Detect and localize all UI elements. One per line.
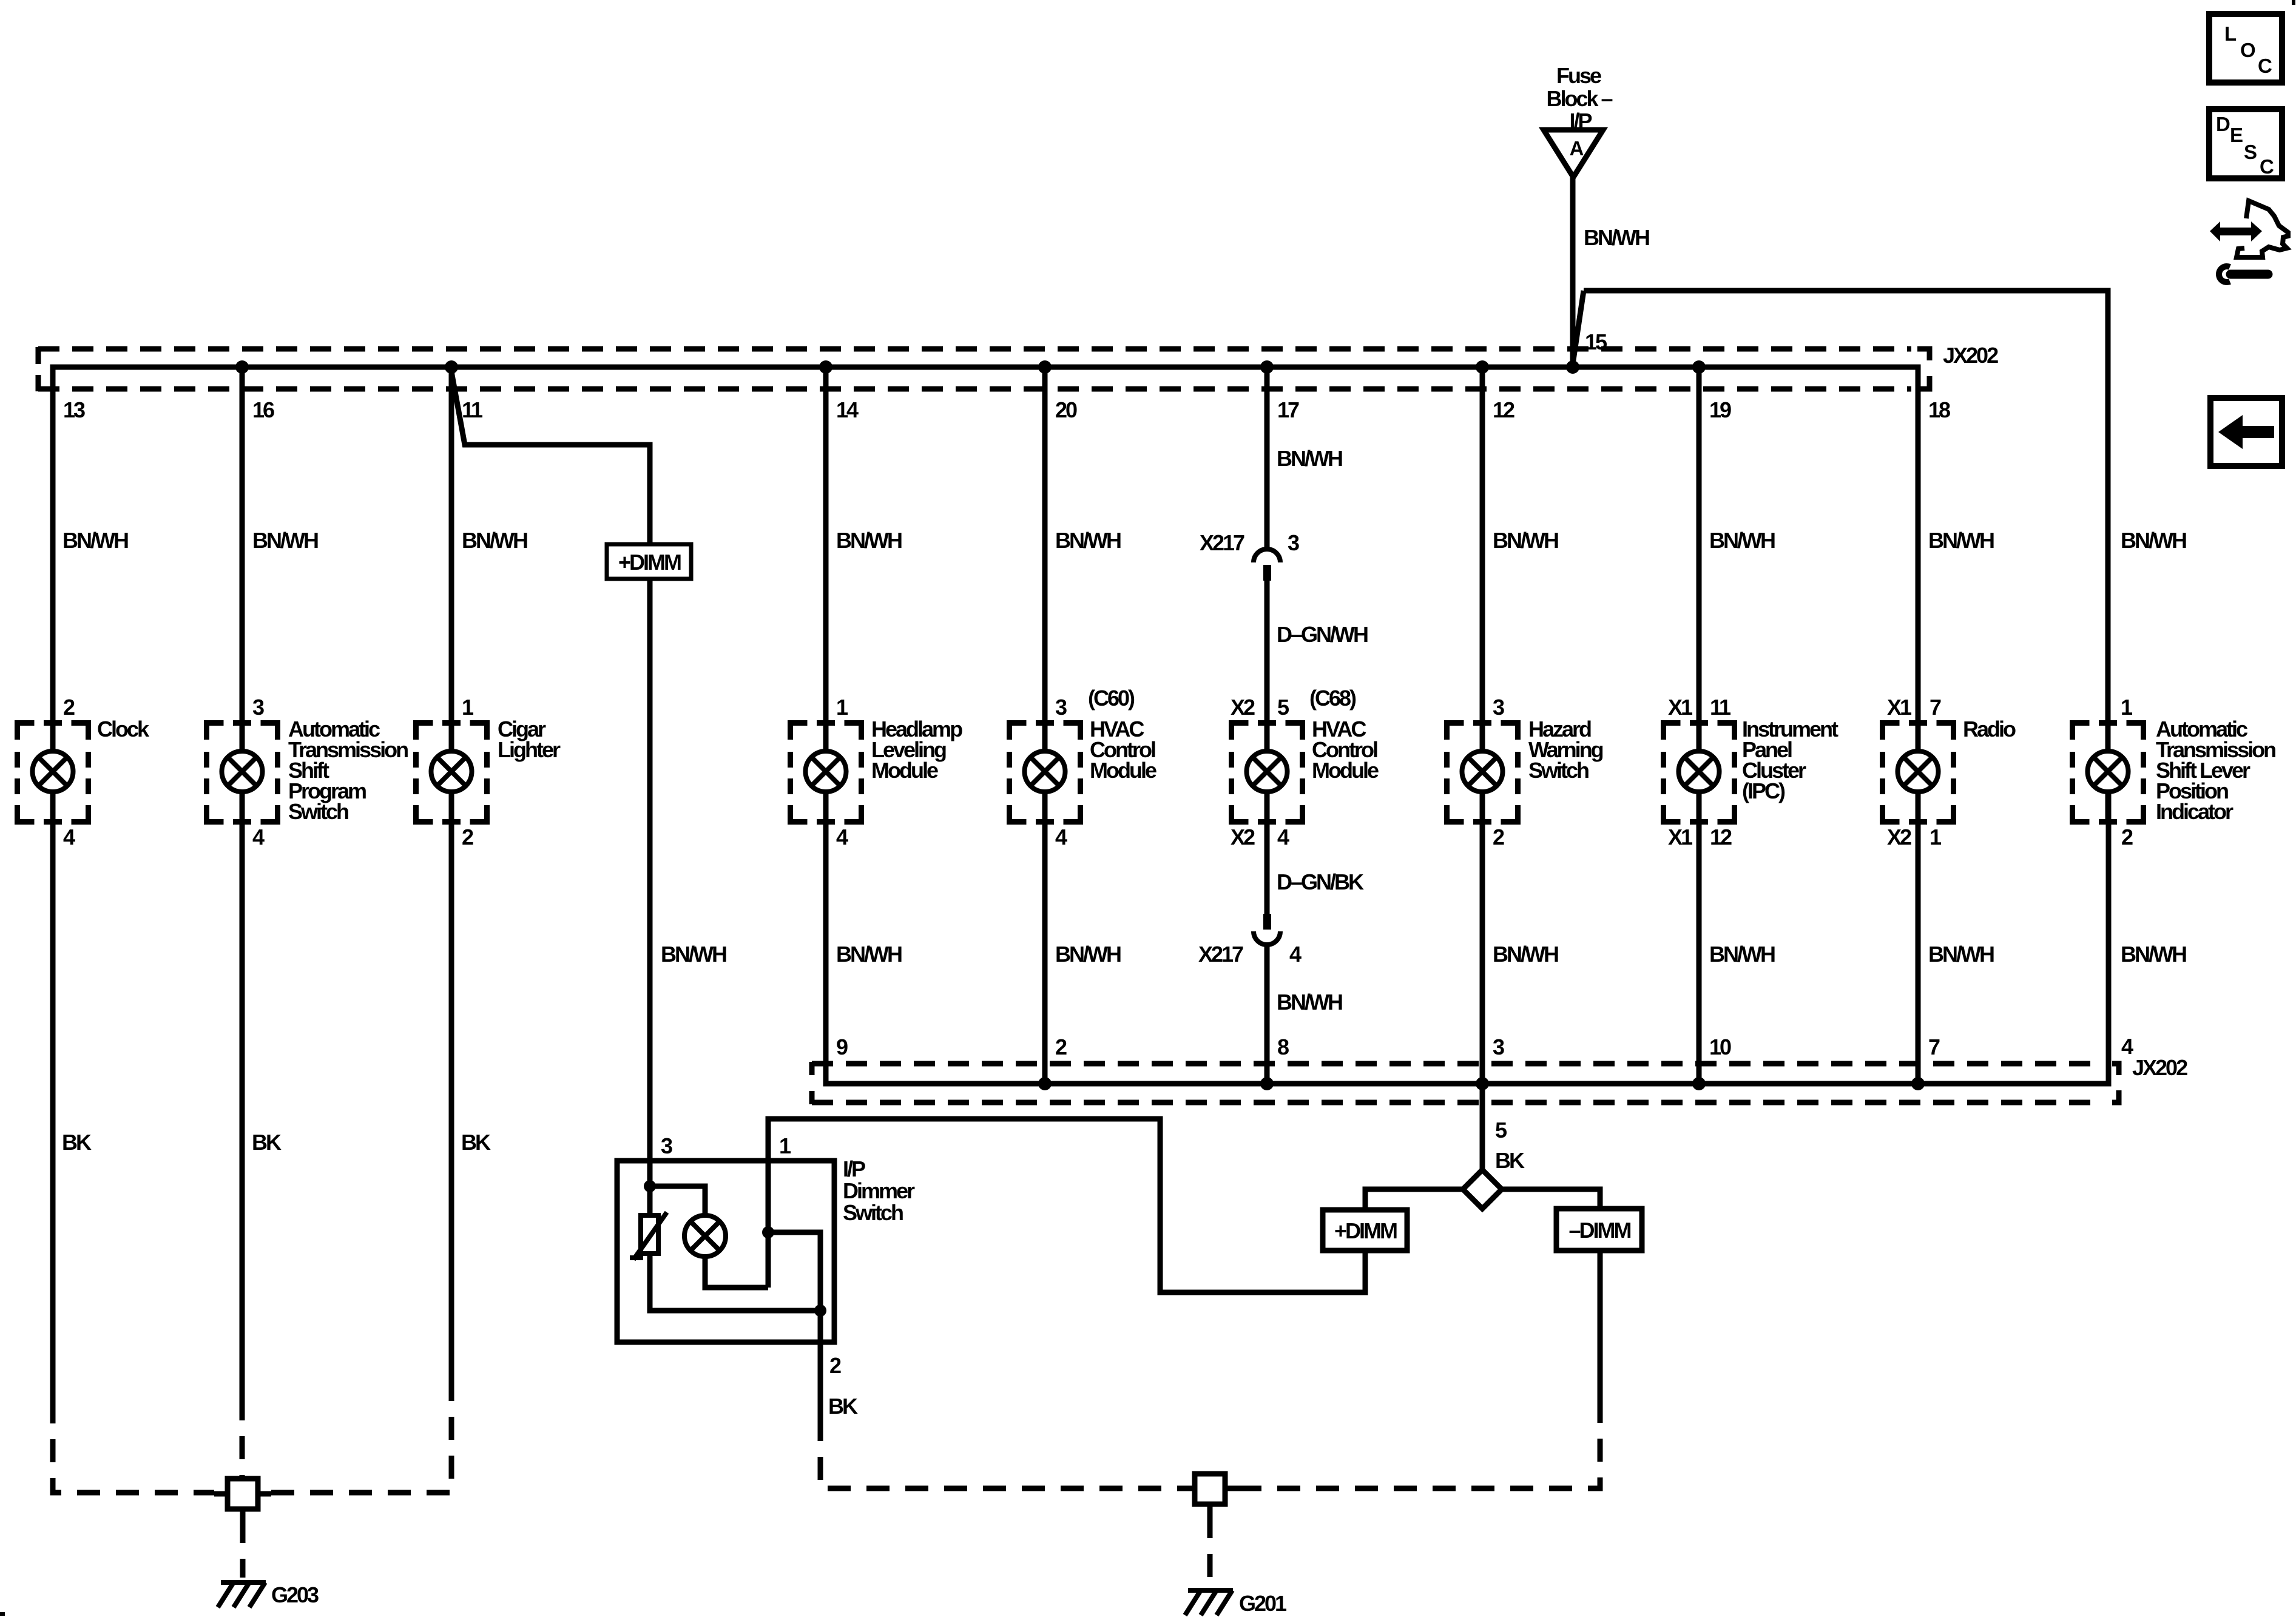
name Automatic Transmission Shift Program Switch bbox=[288, 717, 408, 824]
svg-text:7: 7 bbox=[1930, 695, 1941, 720]
splice diamond bbox=[1463, 1170, 1502, 1209]
svg-text:G203: G203 bbox=[271, 1582, 319, 1607]
svg-text:BN/WH: BN/WH bbox=[1277, 990, 1342, 1014]
connector X217 pin 3 male blade bbox=[1263, 565, 1271, 581]
wire ATSPS lower BK drop bbox=[240, 792, 245, 1397]
node dimmer junction B bbox=[762, 1226, 774, 1238]
wire col 12 drop bbox=[1480, 367, 1485, 751]
JX202 lower junction block dashed outline bbox=[812, 1064, 2096, 1102]
svg-text:7: 7 bbox=[1928, 1035, 1940, 1059]
wire +DIMM return to dimmer switch pin 1 bbox=[768, 1119, 1365, 1292]
I/P Dimmer Switch box bbox=[617, 1161, 834, 1342]
node bus junction col 11 bbox=[445, 360, 458, 374]
svg-text:X2: X2 bbox=[1231, 825, 1255, 849]
svg-text:4: 4 bbox=[63, 825, 75, 849]
svg-text:BN/WH: BN/WH bbox=[1709, 942, 1775, 967]
svg-text:Block –: Block – bbox=[1546, 86, 1612, 111]
svg-text:4: 4 bbox=[1289, 942, 1302, 967]
svg-text:9: 9 bbox=[836, 1035, 848, 1059]
svg-text:1: 1 bbox=[462, 695, 474, 720]
wire col 2 lower drop bbox=[1042, 792, 1048, 1084]
svg-text:X217: X217 bbox=[1198, 942, 1243, 967]
node lower bus junction 8 bbox=[1260, 1077, 1274, 1090]
splice box G203 bbox=[214, 1479, 271, 1520]
wire dimmer pin 3 internal bbox=[647, 1161, 653, 1215]
wire D-GN/BK from HVAC C68 to X217 pin 4 bbox=[1264, 792, 1270, 914]
svg-text:BN/WH: BN/WH bbox=[1584, 225, 1649, 250]
svg-text:Switch: Switch bbox=[1528, 758, 1589, 783]
wire diamond to +DIMM bbox=[1365, 1189, 1463, 1210]
svg-text:BK: BK bbox=[62, 1130, 92, 1155]
wire dimmer B to C bbox=[768, 1232, 820, 1311]
svg-text:8: 8 bbox=[1277, 1035, 1289, 1059]
svg-text:O: O bbox=[2240, 39, 2255, 61]
svg-text:(IPC): (IPC) bbox=[1742, 778, 1785, 803]
svg-text:L: L bbox=[2224, 22, 2237, 45]
svg-text:BN/WH: BN/WH bbox=[2121, 528, 2186, 553]
wire col 20 drop bbox=[1042, 367, 1048, 751]
svg-text:BN/WH: BN/WH bbox=[62, 528, 128, 553]
name HVAC Control Module C60 bbox=[1090, 717, 1156, 783]
node bus junction col 14 bbox=[819, 360, 832, 374]
svg-text:–DIMM: –DIMM bbox=[1569, 1218, 1631, 1243]
svg-text:JX202: JX202 bbox=[1943, 343, 1998, 368]
svg-text:BN/WH: BN/WH bbox=[1493, 942, 1558, 967]
svg-text:2: 2 bbox=[1493, 825, 1504, 849]
ground G203 bbox=[218, 1582, 266, 1607]
svg-text:2: 2 bbox=[1055, 1035, 1067, 1059]
lamp Automatic Transmission Shift Program Switch bbox=[207, 720, 278, 825]
wire lower bus JX202 with end drops bbox=[826, 792, 2109, 1084]
svg-text:2: 2 bbox=[829, 1353, 841, 1378]
lamp Clock bbox=[18, 720, 89, 825]
wire upper bus with Clock and Radio drops bbox=[53, 367, 1918, 751]
svg-text:1: 1 bbox=[1930, 825, 1942, 849]
svg-text:3: 3 bbox=[1493, 695, 1504, 720]
wire D-GN/WH to HVAC C68 bbox=[1264, 581, 1270, 751]
svg-text:S: S bbox=[2244, 141, 2257, 163]
wire col 17 drop to connector X217 bbox=[1264, 367, 1270, 550]
svg-text:2: 2 bbox=[63, 695, 75, 720]
svg-text:Fuse: Fuse bbox=[1556, 63, 1601, 88]
wire feed to Automatic Transmission Shift Lever Position Indicator bbox=[1573, 291, 2108, 751]
svg-text:BN/WH: BN/WH bbox=[836, 942, 902, 967]
wire col 10 lower drop bbox=[1697, 792, 1702, 1084]
svg-text:2: 2 bbox=[462, 825, 473, 849]
connector X217 pin 4 female arc bbox=[1254, 931, 1280, 945]
svg-text:3: 3 bbox=[1288, 530, 1299, 555]
svg-text:Radio: Radio bbox=[1963, 717, 2016, 741]
name I/P Dimmer Switch bbox=[843, 1156, 915, 1225]
svg-text:BN/WH: BN/WH bbox=[252, 528, 318, 553]
fuse block triangle A bbox=[1544, 130, 1603, 177]
svg-text:BN/WH: BN/WH bbox=[1493, 528, 1558, 553]
lamp HVAC Control Module C68 bbox=[1232, 720, 1303, 825]
wire col 16 drop bbox=[240, 367, 245, 751]
svg-text:11: 11 bbox=[1710, 695, 1731, 720]
rheostat dimmer bbox=[630, 1212, 667, 1260]
wire -DIMM branch bbox=[1502, 1189, 1600, 1209]
svg-text:4: 4 bbox=[836, 825, 848, 849]
lamp dimmer illumination bbox=[684, 1215, 726, 1257]
page trim mark bottom left bbox=[0, 1612, 5, 1616]
svg-text:G201: G201 bbox=[1239, 1591, 1287, 1616]
svg-text:19: 19 bbox=[1709, 397, 1731, 422]
svg-text:5: 5 bbox=[1495, 1118, 1507, 1143]
name Headlamp Leveling Module bbox=[871, 717, 962, 783]
svg-text:D–GN/BK: D–GN/BK bbox=[1277, 869, 1364, 894]
svg-text:BK: BK bbox=[1495, 1148, 1525, 1173]
svg-text:16: 16 bbox=[252, 397, 274, 422]
lamp Cigar Lighter bbox=[416, 720, 487, 825]
wire dimmer lamp branch bbox=[650, 1186, 705, 1216]
svg-text:BN/WH: BN/WH bbox=[1055, 942, 1121, 967]
fuse block I/P label bbox=[1546, 63, 1612, 133]
wire dashed ATSPS to splice bbox=[240, 1397, 245, 1479]
svg-text:13: 13 bbox=[63, 397, 85, 422]
wire -DIMM to ground solid part bbox=[1598, 1251, 1603, 1414]
svg-text:(C60): (C60) bbox=[1088, 686, 1135, 711]
wire dashed ground bus left G203 bbox=[53, 1396, 451, 1493]
svg-text:17: 17 bbox=[1277, 397, 1299, 422]
wire dimmer pin 2 BK solid bbox=[818, 1311, 823, 1418]
svg-text:(C68): (C68) bbox=[1309, 686, 1356, 711]
icon back arrow box bbox=[2210, 398, 2282, 466]
connector X217 pin 4 male blade bbox=[1263, 914, 1271, 930]
svg-text:Module: Module bbox=[1090, 758, 1156, 783]
svg-text:X1: X1 bbox=[1668, 825, 1693, 849]
wire Clock lower BK drop bbox=[50, 792, 56, 1400]
node lower bus junction 7 bbox=[1911, 1077, 1925, 1090]
wire dashed ground bus right G201 bbox=[820, 1414, 1600, 1488]
svg-text:Dimmer: Dimmer bbox=[843, 1178, 915, 1203]
wire col 7 lower drop bbox=[1916, 792, 1921, 1084]
lamp Headlamp Leveling Module bbox=[791, 720, 862, 825]
svg-text:C: C bbox=[2258, 55, 2272, 77]
JX202 upper junction block dashed outline bbox=[38, 349, 1911, 389]
svg-text:X2: X2 bbox=[1887, 825, 1911, 849]
svg-text:Module: Module bbox=[871, 758, 938, 783]
wire BN/WH from fuse to bus bbox=[1570, 176, 1576, 365]
+DIMM box lower bbox=[1323, 1210, 1407, 1251]
node bus junction col 17 bbox=[1260, 360, 1274, 374]
svg-text:BN/WH: BN/WH bbox=[836, 528, 902, 553]
svg-text:D: D bbox=[2216, 113, 2230, 135]
name HVAC Control Module C68 bbox=[1312, 717, 1379, 783]
svg-text:3: 3 bbox=[1055, 695, 1067, 720]
wire dashed splice to G201 bbox=[1207, 1515, 1213, 1584]
svg-text:3: 3 bbox=[252, 695, 264, 720]
svg-text:X2: X2 bbox=[1231, 695, 1255, 720]
svg-text:11: 11 bbox=[462, 397, 483, 422]
svg-text:1: 1 bbox=[2121, 695, 2133, 720]
icon wrench bbox=[2219, 266, 2268, 282]
svg-text:BN/WH: BN/WH bbox=[661, 942, 726, 967]
node lower bus junction 2 bbox=[1038, 1077, 1052, 1090]
svg-text:Module: Module bbox=[1312, 758, 1379, 783]
wire col 11 drop bbox=[449, 367, 454, 751]
svg-text:Switch: Switch bbox=[288, 799, 348, 824]
svg-text:Lighter: Lighter bbox=[498, 737, 561, 762]
node bus junction col 19 bbox=[1692, 360, 1706, 374]
svg-text:BK: BK bbox=[461, 1130, 491, 1155]
page trim mark top right bbox=[2292, 0, 2295, 5]
icon DESC box bbox=[2209, 109, 2282, 178]
icon harness double arrow bbox=[2210, 221, 2262, 241]
svg-text:3: 3 bbox=[661, 1133, 672, 1158]
-DIMM box bbox=[1556, 1209, 1642, 1251]
name Cigar Lighter bbox=[498, 717, 561, 762]
svg-text:I/P: I/P bbox=[843, 1156, 865, 1181]
svg-text:BN/WH: BN/WH bbox=[462, 528, 527, 553]
svg-text:12: 12 bbox=[1493, 397, 1514, 422]
name Automatic Transmission Shift Lever Position Indicator bbox=[2156, 717, 2275, 824]
svg-text:4: 4 bbox=[1055, 825, 1067, 849]
svg-text:2: 2 bbox=[2121, 825, 2133, 849]
svg-text:5: 5 bbox=[1277, 695, 1289, 720]
svg-text:Indicator: Indicator bbox=[2156, 799, 2234, 824]
lamp Radio bbox=[1883, 720, 1954, 825]
connector X217 pin 3 female arc bbox=[1254, 549, 1280, 562]
svg-text:20: 20 bbox=[1055, 397, 1077, 422]
svg-text:C: C bbox=[2260, 155, 2274, 178]
wire dimmer lamp to pin1 leg bbox=[705, 1257, 768, 1288]
node lower bus junction 3 bbox=[1476, 1077, 1489, 1090]
node bus junction col 16 bbox=[235, 360, 249, 374]
svg-text:Clock: Clock bbox=[97, 717, 150, 741]
lamp Automatic Transmission Shift Lever Position Indicator bbox=[2073, 720, 2144, 825]
svg-text:BN/WH: BN/WH bbox=[1709, 528, 1775, 553]
icon car outline bbox=[2237, 201, 2288, 257]
svg-text:18: 18 bbox=[1928, 397, 1950, 422]
svg-text:BN/WH: BN/WH bbox=[1928, 942, 1994, 967]
svg-text:X217: X217 bbox=[1200, 530, 1244, 555]
svg-text:1: 1 bbox=[779, 1133, 791, 1158]
wire +DIMM to I/P dimmer switch pin 3 bbox=[647, 579, 653, 1161]
svg-text:BK: BK bbox=[828, 1394, 858, 1419]
wire X217 to lower bus pin 8 bbox=[1264, 944, 1270, 1084]
svg-text:JX202: JX202 bbox=[2132, 1055, 2187, 1080]
svg-text:4: 4 bbox=[2121, 1034, 2133, 1059]
svg-text:4: 4 bbox=[252, 825, 265, 849]
svg-text:4: 4 bbox=[1277, 825, 1289, 849]
lamp Instrument Panel Cluster bbox=[1664, 720, 1735, 825]
svg-text:E: E bbox=[2230, 124, 2243, 146]
lamp Hazard Warning Switch bbox=[1447, 720, 1518, 825]
name Instrument Panel Cluster IPC bbox=[1742, 717, 1838, 803]
svg-text:Switch: Switch bbox=[843, 1200, 903, 1225]
name Hazard Warning Switch bbox=[1528, 717, 1603, 783]
svg-text:+DIMM: +DIMM bbox=[618, 550, 681, 575]
+DIMM box upper bbox=[607, 544, 691, 579]
node bus junction col 20 bbox=[1038, 360, 1052, 374]
wire col 14 drop bbox=[823, 367, 829, 751]
ground G201 bbox=[1185, 1590, 1233, 1615]
node dimmer junction A bbox=[644, 1180, 656, 1192]
svg-text:BN/WH: BN/WH bbox=[1055, 528, 1121, 553]
svg-text:BN/WH: BN/WH bbox=[1928, 528, 1994, 553]
wire col 19 drop bbox=[1697, 367, 1702, 751]
wire dashed splice to G203 bbox=[240, 1520, 246, 1578]
svg-text:14: 14 bbox=[836, 397, 859, 422]
node bus junction fuse feed 15 bbox=[1566, 360, 1579, 374]
icon LOC box bbox=[2209, 14, 2282, 83]
svg-text:X1: X1 bbox=[1668, 695, 1693, 720]
svg-text:BN/WH: BN/WH bbox=[2121, 942, 2186, 967]
wire branch to +DIMM from pin 11 bbox=[451, 367, 650, 546]
svg-text:1: 1 bbox=[836, 695, 848, 720]
svg-text:D–GN/WH: D–GN/WH bbox=[1277, 622, 1368, 647]
svg-text:3: 3 bbox=[1493, 1035, 1504, 1059]
node lower bus junction 10 bbox=[1692, 1077, 1706, 1090]
wire Cigar Lighter lower BK drop bbox=[449, 792, 454, 1396]
svg-text:X1: X1 bbox=[1887, 695, 1912, 720]
wire hazard drop through bus to splice bbox=[1480, 792, 1485, 1171]
svg-text:12: 12 bbox=[1710, 825, 1732, 849]
wire rheostat to pin 2 node bbox=[650, 1254, 820, 1311]
node dimmer junction C bbox=[814, 1305, 826, 1317]
svg-text:BN/WH: BN/WH bbox=[1277, 446, 1342, 471]
svg-text:+DIMM: +DIMM bbox=[1334, 1218, 1397, 1243]
svg-text:10: 10 bbox=[1709, 1035, 1731, 1059]
svg-text:BK: BK bbox=[252, 1130, 282, 1155]
svg-text:A: A bbox=[1570, 137, 1584, 160]
wire dimmer pin 1 internal bbox=[766, 1161, 771, 1288]
splice box G201 bbox=[1181, 1474, 1238, 1515]
lamp HVAC Control Module C60 bbox=[1010, 720, 1081, 825]
node bus junction col 12 bbox=[1476, 360, 1489, 374]
